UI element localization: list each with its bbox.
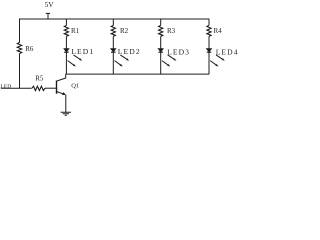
- svg-text:R5: R5: [35, 75, 44, 83]
- resistor R2: [111, 25, 115, 36]
- LED3 emission arrows: [168, 55, 174, 59]
- svg-text:LED3: LED3: [167, 47, 190, 56]
- wire column 3 mid: [160, 36, 162, 49]
- wire column 4 mid: [208, 36, 210, 49]
- svg-text:LED1: LED1: [71, 47, 94, 56]
- svg-text:R1: R1: [71, 27, 80, 35]
- resistor R3: [159, 25, 163, 36]
- wire column 4 upper: [208, 19, 210, 26]
- svg-text:5V: 5V: [45, 0, 55, 9]
- wire column 4 lower: [208, 52, 210, 74]
- svg-text:LED4: LED4: [216, 47, 239, 56]
- resistor R1: [64, 25, 68, 36]
- svg-text:LED2: LED2: [118, 47, 141, 56]
- wire column 2 upper: [112, 19, 114, 26]
- svg-text:LED: LED: [0, 84, 11, 90]
- wire R6 branch lower: [19, 54, 21, 89]
- svg-text:Q1: Q1: [71, 83, 79, 90]
- resistor R5: [32, 86, 45, 90]
- LED LED4 diode: [207, 49, 212, 52]
- svg-text:R6: R6: [25, 45, 34, 53]
- transistor Q1 emitter lead: [57, 92, 63, 94]
- wire base net right: [45, 87, 56, 89]
- wire emitter to ground: [65, 95, 67, 113]
- wire column 1 lower: [65, 52, 67, 74]
- wire top rail: [19, 18, 209, 20]
- wire column 1 upper: [65, 19, 67, 26]
- svg-text:R3: R3: [167, 27, 176, 35]
- LED4 emission arrows: [216, 55, 222, 59]
- svg-text:R2: R2: [120, 27, 129, 35]
- power symbol 5V: [46, 13, 50, 19]
- transistor Q1 base bar: [56, 81, 58, 94]
- LED LED1 diode: [64, 49, 69, 52]
- ground: [61, 112, 71, 115]
- resistor R6: [17, 42, 21, 53]
- wire column 3 upper: [160, 19, 162, 26]
- wire base net left: [1, 87, 32, 89]
- wire column 2 mid: [112, 36, 114, 49]
- LED LED3 diode: [158, 49, 163, 52]
- wire column 3 lower: [160, 52, 162, 74]
- transistor Q1 collector lead: [57, 74, 66, 81]
- resistor R4: [207, 25, 211, 36]
- wire column 1 mid: [65, 36, 67, 49]
- wire column 2 lower: [112, 52, 114, 74]
- LED2 emission arrows: [120, 55, 126, 59]
- wire collector rail: [66, 73, 209, 75]
- LED1 emission arrows: [73, 55, 79, 59]
- LED LED2 diode: [111, 49, 116, 52]
- wire R6 branch upper: [19, 19, 21, 43]
- svg-text:R4: R4: [214, 27, 223, 35]
